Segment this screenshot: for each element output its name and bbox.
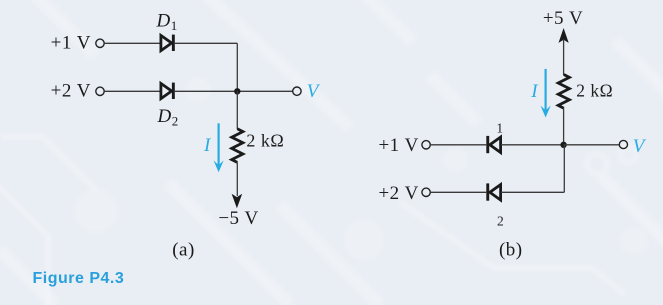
label +1 V (b) [378, 135, 418, 156]
wire D2 to node and on to V terminal [175, 90, 293, 92]
svg-text:I: I [530, 81, 539, 102]
resistor R (b) 2k [558, 75, 569, 109]
terminal +1V (a) [96, 39, 104, 47]
label 2 [497, 214, 504, 229]
caption (a) [172, 239, 195, 260]
arrowhead to -5V [232, 194, 243, 209]
label V (a) [307, 81, 321, 102]
wire resistor to -5V arrow [236, 162, 238, 196]
wire node to resistor (a) [236, 91, 238, 129]
label +2 V [51, 81, 91, 102]
wire terminal to diode 1 (b) [430, 144, 486, 146]
terminal V (b) [619, 140, 627, 148]
svg-text:1: 1 [496, 120, 503, 135]
svg-text:1: 1 [171, 18, 178, 33]
svg-text:(a): (a) [172, 239, 195, 260]
label +2 V (b) [378, 183, 418, 204]
label -5 V [218, 208, 258, 229]
wire D1 to corner [175, 42, 238, 44]
wire supply to resistor [563, 39, 565, 75]
svg-text:Figure P4.3: Figure P4.3 [33, 270, 125, 287]
svg-text:+1 V: +1 V [51, 33, 91, 54]
svg-text:D: D [156, 11, 171, 32]
svg-text:+2 V: +2 V [51, 81, 91, 102]
label D2 [157, 106, 179, 129]
svg-text:(b): (b) [499, 239, 523, 260]
svg-text:I: I [203, 135, 212, 156]
caption (b) [499, 239, 523, 260]
terminal +1V (b) [422, 141, 430, 149]
label D1 [156, 11, 178, 34]
svg-text:+5 V: +5 V [543, 8, 583, 29]
svg-text:+1 V: +1 V [378, 135, 418, 156]
figure caption [33, 270, 125, 287]
wire terminal to diode 2 (b) [430, 191, 486, 193]
wire terminal1 to D1 [104, 42, 160, 44]
svg-text:D: D [157, 106, 172, 127]
resistor R (a) 2k [232, 129, 243, 163]
terminal V (a) [293, 87, 301, 95]
diode D1 [161, 35, 175, 51]
wire diode 1 to node (b) [501, 144, 564, 146]
node (b) [560, 142, 566, 148]
svg-text:V: V [633, 136, 647, 157]
label 1 [496, 120, 503, 135]
svg-text:2 kΩ: 2 kΩ [576, 81, 613, 101]
label +1 V [51, 33, 91, 54]
svg-text:V: V [307, 81, 321, 102]
wire node to V terminal (b) [564, 144, 620, 146]
label +5 V [543, 8, 583, 29]
label 2 kOhm (b) [576, 81, 613, 101]
svg-text:2 kΩ: 2 kΩ [246, 131, 284, 151]
label V (b) [633, 136, 647, 157]
diode 2 (b) [486, 183, 500, 200]
arrowhead +5V supply [559, 28, 569, 43]
wire terminal2 to D2 [104, 90, 160, 92]
label 2 kOhm (a) [246, 131, 284, 151]
current arrow I (a) [214, 123, 224, 172]
wire riser to node (b) [563, 145, 565, 193]
terminal +2V (b) [422, 188, 430, 196]
svg-text:2: 2 [172, 114, 179, 129]
wire corner down to node [236, 43, 238, 91]
node (a) [234, 88, 240, 94]
label I (b) [530, 81, 539, 102]
wire diode 2 to riser (b) [501, 191, 564, 193]
diode D2 [161, 83, 175, 99]
terminal +2V (a) [96, 87, 104, 95]
wire resistor to node (b) [563, 108, 565, 145]
label I (a) [203, 135, 212, 156]
svg-text:2: 2 [497, 214, 504, 229]
svg-text:+2 V: +2 V [378, 183, 418, 204]
diode 1 (b) [486, 136, 500, 153]
current arrow I (b) [541, 69, 551, 118]
svg-text:−5 V: −5 V [218, 208, 258, 229]
